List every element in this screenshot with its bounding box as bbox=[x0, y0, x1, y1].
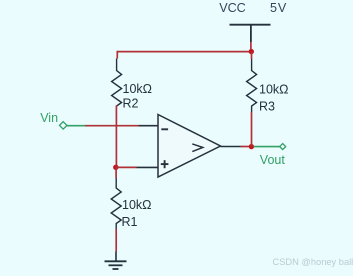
VCC power symbol bbox=[230, 25, 271, 42]
svg-text:10kΩ: 10kΩ bbox=[122, 198, 152, 212]
svg-text:Vin: Vin bbox=[40, 111, 58, 125]
svg-text:VCC: VCC bbox=[219, 1, 246, 15]
wire Vin green segment bbox=[67, 125, 85, 127]
svg-text:CSDN @honey ball: CSDN @honey ball bbox=[273, 257, 353, 267]
wire top horizontal VCC net bbox=[117, 51, 251, 53]
node junction divider midpoint bbox=[113, 165, 118, 170]
svg-text:5V: 5V bbox=[270, 1, 287, 15]
svg-text:R2: R2 bbox=[123, 97, 139, 111]
svg-text:R3: R3 bbox=[259, 100, 275, 114]
wire corner drop to R2 bbox=[116, 51, 118, 59]
wire R1 to ground (red) bbox=[115, 229, 117, 252]
resistor R2 bbox=[112, 59, 122, 107]
svg-text:Vout: Vout bbox=[260, 153, 286, 167]
svg-text:R1: R1 bbox=[122, 215, 138, 229]
pin plus glyph bbox=[161, 160, 169, 168]
wire R3 top red stub bbox=[251, 52, 253, 59]
wire output red segment bbox=[241, 146, 252, 148]
wire non-inverting input stub bbox=[137, 166, 159, 168]
svg-text:10kΩ: 10kΩ bbox=[259, 82, 289, 96]
node junction output / R3 bbox=[249, 144, 254, 149]
wire R2 bottom to junction (red vertical) bbox=[115, 106, 117, 168]
wire Vout green segment bbox=[254, 146, 281, 148]
terminal Vout bbox=[280, 144, 286, 150]
node junction at VCC / R3 bbox=[249, 49, 254, 54]
wire junction to non-inverting input (red) bbox=[116, 166, 137, 168]
wire R3 bottom to output junction (red) bbox=[251, 112, 253, 147]
wire inverting input stub bbox=[139, 125, 159, 127]
op-amp U1 comparator triangle bbox=[158, 115, 221, 178]
wire Vin red segment to inverting input bbox=[85, 125, 139, 127]
resistor R1 bbox=[111, 178, 121, 229]
wire junction to R1 (red) bbox=[115, 167, 117, 178]
wire op-amp output stub bbox=[221, 146, 241, 148]
comparator symbol inside op-amp bbox=[192, 144, 203, 152]
wire VCC stem (red) bbox=[250, 42, 252, 52]
terminal Vin bbox=[60, 122, 67, 129]
resistor R3 bbox=[247, 59, 257, 112]
pin minus glyph bbox=[161, 128, 168, 130]
ground bbox=[105, 252, 127, 270]
svg-text:10kΩ: 10kΩ bbox=[123, 82, 153, 96]
